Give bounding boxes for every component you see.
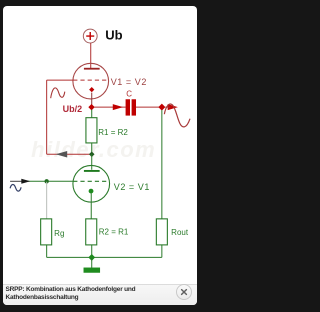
svg-text:V2 = V1: V2 = V1 (114, 181, 150, 191)
V2 cathode dot (89, 188, 94, 193)
wire input node to Rg (46, 181, 48, 218)
resistor R2 (86, 218, 97, 244)
wire output node to Rout (161, 110, 163, 219)
node ground (88, 254, 95, 261)
input source squiggle (10, 184, 21, 191)
wire supply to V1 anode (90, 42, 92, 67)
wire tap to R1 (91, 109, 93, 117)
resistor Rout (156, 218, 167, 244)
wire Rg to rail (46, 244, 48, 257)
resistor Rg (41, 218, 52, 244)
wire V1 grid to left (47, 79, 74, 81)
node output (158, 103, 165, 110)
svg-text:Rout: Rout (171, 227, 189, 236)
close button (176, 284, 192, 300)
capacitor C (126, 99, 130, 115)
wire tap to capacitor (94, 106, 125, 108)
node output tap (88, 103, 94, 109)
svg-text:V1 = V2: V1 = V2 (111, 77, 147, 87)
V2 grid (dashed) (73, 180, 109, 182)
ground rail (47, 256, 162, 258)
triode V1 envelope (73, 63, 109, 99)
V2 anode plate (84, 169, 100, 171)
svg-text:Rg: Rg (54, 228, 64, 237)
input wire (10, 180, 22, 182)
output arrow (168, 104, 178, 110)
wire V2 cathode to R2 (90, 193, 92, 219)
output signal squiggle (164, 103, 190, 126)
resistor R1 (86, 117, 97, 142)
caption bar (3, 284, 197, 306)
node below R1 (89, 151, 95, 157)
V1 cathode dot (89, 87, 94, 92)
power supply symbol Ub (83, 29, 97, 43)
wire feedback horizontal (47, 153, 92, 155)
arrow to capacitor (113, 104, 123, 110)
wire node to ground (91, 257, 93, 268)
wire Rout to rail (161, 244, 163, 257)
node input (44, 179, 48, 183)
ground (84, 267, 101, 272)
svg-text:Ub/2: Ub/2 (63, 104, 83, 114)
V1 anode plate (84, 67, 100, 69)
arrow on feedback wire (56, 151, 68, 157)
svg-text:R2 = R1: R2 = R1 (99, 227, 129, 236)
wire node to V2 anode (91, 154, 93, 170)
V1 grid (dashed) (73, 79, 108, 81)
svg-text:C: C (126, 89, 132, 98)
wire R1 to node (91, 142, 93, 153)
svg-text:Ub: Ub (105, 27, 122, 42)
wire V1 cathode down (91, 92, 93, 104)
svg-text:R1 = R2: R1 = R2 (98, 128, 128, 137)
wire feedback vertical (46, 80, 48, 154)
triode V2 envelope (73, 165, 110, 202)
wire R2 to rail (91, 244, 93, 257)
grid signal squiggle (51, 87, 65, 97)
input arrow (21, 178, 30, 183)
wire capacitor to output node (136, 106, 159, 108)
